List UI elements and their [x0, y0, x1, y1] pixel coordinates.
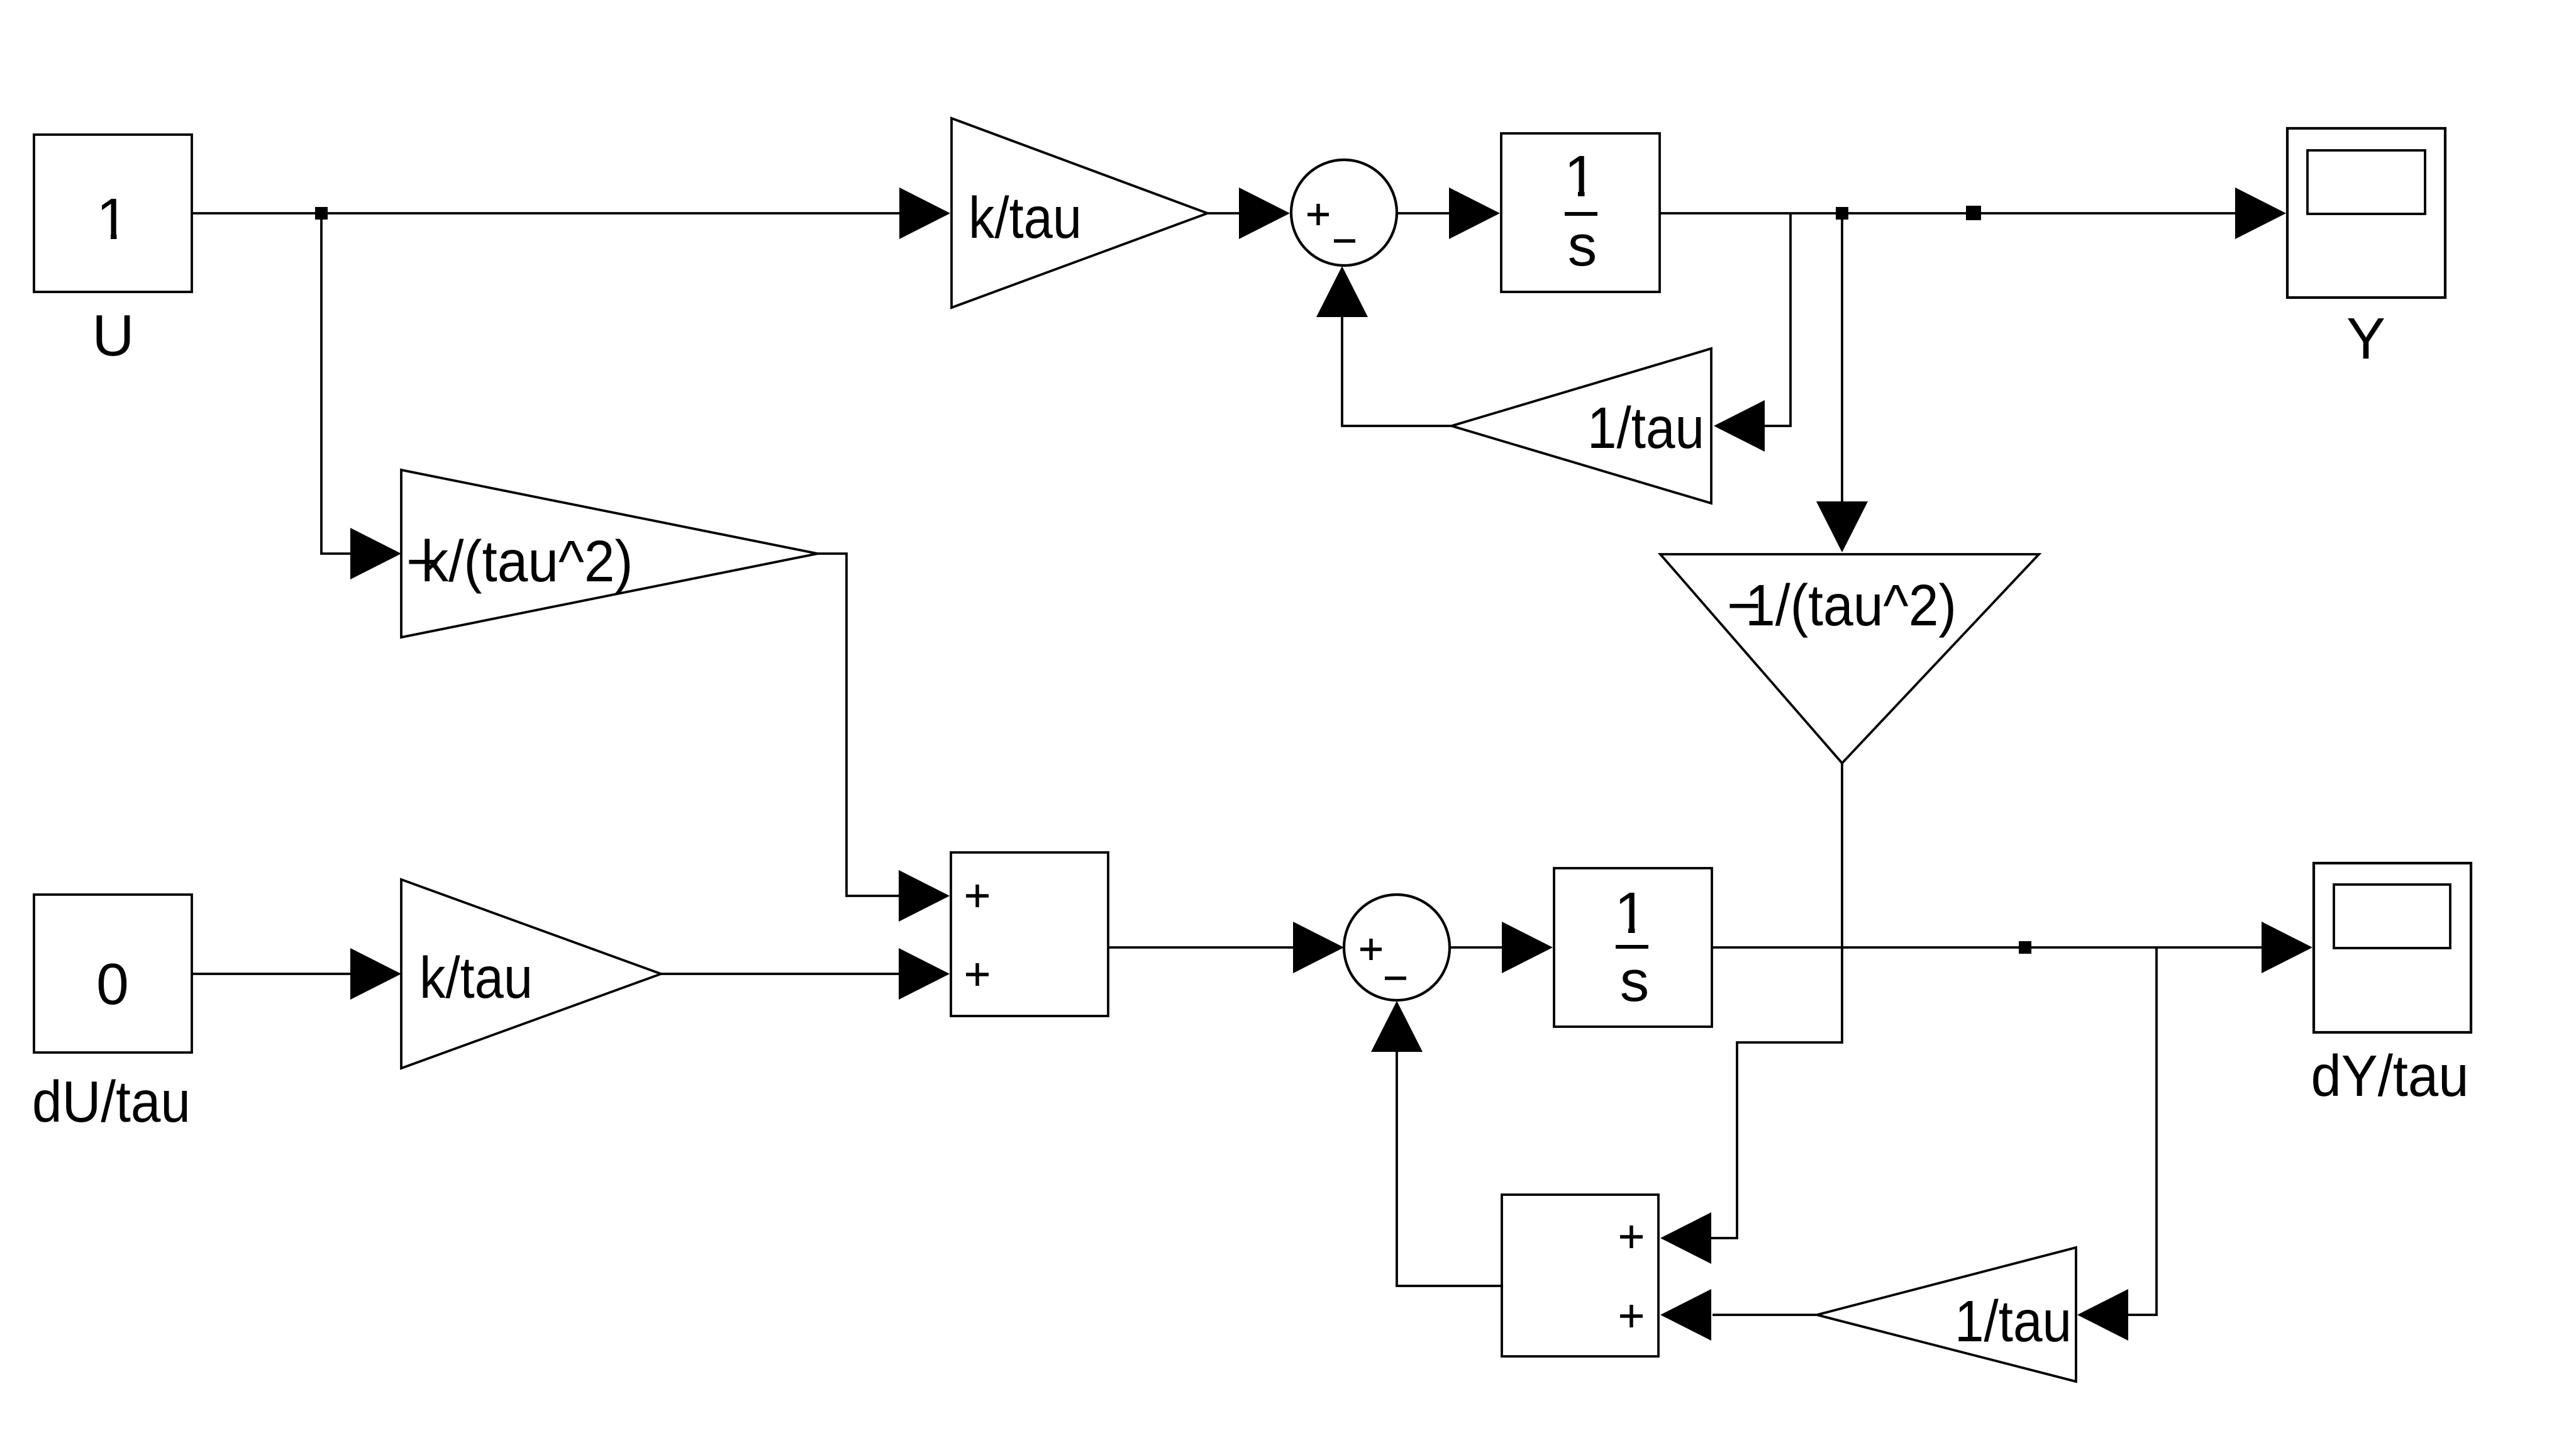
integrator block 1/s (top)	[1501, 133, 1660, 292]
constant block U	[34, 135, 192, 292]
constant block dU/tau	[34, 895, 192, 1053]
gain k/tau (bottom)	[401, 879, 661, 1068]
svg-text:s: s	[1568, 213, 1597, 278]
arrowhead into integrator 1	[1449, 187, 1500, 239]
junction dot on U wire	[315, 207, 328, 220]
wire gain -k/(tau^2) output to sum block 1 top input	[818, 554, 900, 896]
junction dot feeding down-gain	[1836, 207, 1848, 220]
wire integrator 2 to scope dY/tau	[1712, 946, 2263, 949]
plus sign of sum circle 1	[1307, 204, 1329, 225]
arrowhead into sum block 2 top input	[1660, 1212, 1711, 1264]
fraction bar of integrator 2	[1616, 945, 1648, 949]
wire branch from U junction down to gain -k/(tau^2)	[321, 213, 352, 554]
wire sum 1 to integrator 1	[1397, 212, 1450, 215]
plus sign top of sum block 1	[966, 885, 989, 907]
svg-text:k/(tau^2): k/(tau^2)	[421, 528, 633, 594]
svg-text:s: s	[1620, 948, 1650, 1013]
arrowhead into gain k/tau bottom	[350, 948, 401, 1000]
wire integrator 1 to scope Y	[1660, 212, 2236, 215]
arrowhead into gain -k/(tau^2)	[350, 528, 401, 579]
arrowhead into integrator 2	[1502, 922, 1553, 973]
arrowhead down into gain -1/(tau^2)	[1816, 501, 1868, 552]
svg-text:k/tau: k/tau	[419, 945, 533, 1010]
wire sum circle 2 to integrator 2	[1450, 946, 1503, 949]
scope block Y	[2287, 128, 2445, 298]
value label -1/(tau^2)	[1727, 572, 1957, 638]
svg-text:1: 1	[1564, 143, 1597, 209]
arrowhead into sum circle 1	[1239, 187, 1290, 239]
serif patch for integrator 1 numerator	[1565, 190, 1596, 198]
junction dot on scope Y wire	[1966, 206, 1981, 220]
gain k/tau (top)	[952, 118, 1207, 308]
svg-text:U: U	[92, 303, 134, 368]
arrowhead into sum block 1 bottom input	[899, 948, 950, 1000]
sum circle 2	[1344, 895, 1450, 1000]
arrowhead into sum block 2 bottom input	[1660, 1289, 1711, 1341]
fraction bar of integrator 1	[1565, 212, 1597, 216]
svg-text:0: 0	[96, 951, 129, 1017]
arrowhead into sum block 1 top input	[899, 870, 950, 922]
wire U output	[192, 212, 900, 215]
plus sign bottom of sum block 2	[1620, 1305, 1643, 1327]
sum block 2 (++)	[1502, 1195, 1658, 1356]
arrowhead into feedback gain 1/tau	[1714, 400, 1765, 452]
arrowhead into scope dY/tau	[2262, 922, 2312, 973]
serif patch for constant U digit	[97, 233, 128, 241]
wire branch from scope dY/tau wire down to gain 1/tau bottom	[2127, 947, 2157, 1315]
arrowhead up into sum circle 1	[1316, 266, 1368, 317]
arrowhead up into sum circle 2	[1371, 1001, 1423, 1052]
svg-text:1: 1	[1614, 880, 1647, 946]
wire sum block 2 output to sum circle 2 bottom	[1397, 1051, 1503, 1286]
wire gain k/tau bottom to sum block 1	[661, 973, 900, 975]
serif patch for integrator 2 numerator	[1616, 927, 1646, 934]
plus sign of sum circle 2	[1360, 939, 1382, 960]
svg-text:Y: Y	[2346, 306, 2385, 371]
sum block 1 (++)	[951, 852, 1108, 1016]
wire gain k/tau to sum	[1207, 212, 1241, 215]
svg-text:1: 1	[96, 186, 129, 252]
gain 1/tau (top feedback, pointing left)	[1452, 349, 1711, 503]
gain 1/tau (bottom, pointing left)	[1817, 1248, 2076, 1382]
wire dU/tau output	[192, 973, 352, 975]
integrator block 1/s (bottom)	[1554, 868, 1712, 1027]
scope block dY/tau	[2314, 863, 2471, 1032]
sum circle 1	[1291, 160, 1397, 265]
gain -1/(tau^2) (pointing down)	[1660, 554, 2039, 763]
minus sign of sum circle 2	[1385, 976, 1406, 980]
wire gain 1/tau output to sum 1 bottom	[1342, 315, 1452, 426]
wire gain -1/(tau^2) output to sum block 2 top input	[1710, 763, 1842, 1238]
arrowhead into gain 1/tau bottom	[2077, 1289, 2128, 1341]
wire branch down to feedback gain 1/tau	[1765, 213, 1790, 426]
wire sum block 1 to sum circle 2	[1108, 946, 1294, 949]
svg-text:1/(tau^2): 1/(tau^2)	[1745, 572, 1957, 638]
arrowhead into gain k/tau	[899, 187, 950, 239]
svg-text:k/tau: k/tau	[969, 185, 1082, 250]
plus sign top of sum block 2	[1620, 1226, 1643, 1248]
plus sign bottom of sum block 1	[966, 963, 989, 986]
wire down from junction to gain -1/(tau^2)	[1841, 213, 1843, 503]
arrowhead into sum circle 2	[1293, 922, 1344, 973]
gain -k/(tau^2) (pointing right)	[401, 470, 818, 637]
scope Y screen	[2307, 150, 2425, 214]
svg-text:1/tau: 1/tau	[1587, 395, 1704, 461]
svg-text:1/tau: 1/tau	[1955, 1288, 2072, 1354]
scope dY/tau screen	[2334, 885, 2450, 948]
wire gain 1/tau bottom to sum block 2 bottom input	[1713, 1314, 1817, 1316]
junction dot on scope dY/tau wire	[2019, 941, 2031, 954]
svg-text:dU/tau: dU/tau	[32, 1069, 191, 1134]
svg-text:dY/tau: dY/tau	[2311, 1043, 2469, 1108]
value label -k/(tau^2)	[406, 528, 633, 594]
arrowhead into scope Y	[2235, 187, 2286, 239]
minus sign of sum circle 1	[1334, 239, 1355, 243]
